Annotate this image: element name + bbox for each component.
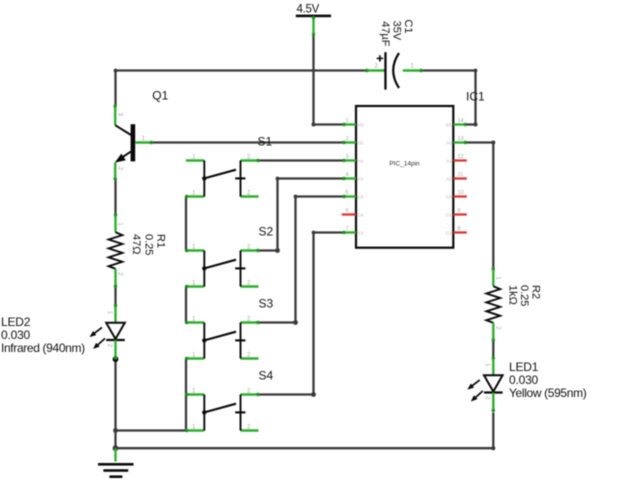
svg-text:12: 12 [458, 154, 464, 160]
svg-text:47µF: 47µF [379, 21, 391, 47]
svg-text:47Ω: 47Ω [130, 234, 142, 254]
svg-text:LED1: LED1 [509, 360, 539, 374]
svg-text:0.25: 0.25 [518, 285, 530, 306]
svg-text:0.030: 0.030 [509, 373, 539, 387]
svg-text:7: 7 [346, 226, 349, 232]
svg-text:R1: R1 [155, 234, 167, 248]
svg-text:A0: A0 [446, 141, 452, 146]
svg-text:1kΩ: 1kΩ [507, 285, 519, 305]
svg-text:R2: R2 [530, 285, 542, 299]
svg-text:6: 6 [346, 208, 349, 214]
svg-text:C1: C1 [402, 19, 414, 33]
svg-text:S3: S3 [259, 297, 274, 311]
svg-text:IC1: IC1 [466, 89, 485, 103]
svg-text:4: 4 [346, 172, 349, 178]
svg-text:8: 8 [458, 226, 461, 232]
svg-text:A3: A3 [358, 177, 364, 182]
svg-text:C5: C5 [358, 195, 364, 200]
svg-text:14: 14 [458, 118, 464, 124]
svg-text:0.25: 0.25 [143, 234, 155, 255]
svg-text:LED2: LED2 [1, 315, 31, 329]
svg-text:13: 13 [458, 136, 464, 142]
svg-text:2: 2 [346, 136, 349, 142]
svg-text:C1: C1 [446, 213, 452, 218]
svg-text:S1: S1 [258, 134, 273, 148]
svg-text:9: 9 [458, 208, 461, 214]
svg-text:Infrared (940nm): Infrared (940nm) [1, 341, 85, 355]
svg-text:3: 3 [346, 154, 349, 160]
svg-text:S4: S4 [259, 369, 274, 383]
svg-text:A1: A1 [446, 159, 452, 164]
svg-text:VD: VD [358, 123, 365, 128]
svg-text:C4: C4 [358, 213, 364, 218]
svg-text:4.5V: 4.5V [297, 4, 320, 16]
svg-text:C2: C2 [446, 231, 452, 236]
svg-text:PIC_14pin: PIC_14pin [389, 161, 420, 168]
svg-text:A2: A2 [446, 177, 452, 182]
svg-text:C3: C3 [358, 231, 364, 236]
svg-text:11: 11 [458, 172, 464, 178]
svg-text:1: 1 [346, 118, 349, 124]
svg-text:Yellow (595nm): Yellow (595nm) [509, 386, 587, 400]
svg-text:35V: 35V [391, 21, 403, 41]
svg-text:A4: A4 [358, 159, 364, 164]
svg-text:A5: A5 [358, 141, 364, 146]
svg-text:0.030: 0.030 [1, 328, 31, 342]
svg-text:C0: C0 [446, 195, 452, 200]
svg-text:10: 10 [458, 190, 464, 196]
svg-text:5: 5 [346, 190, 349, 196]
svg-text:S2: S2 [259, 224, 274, 238]
svg-text:Q1: Q1 [152, 88, 168, 102]
svg-text:SS: SS [445, 123, 451, 128]
